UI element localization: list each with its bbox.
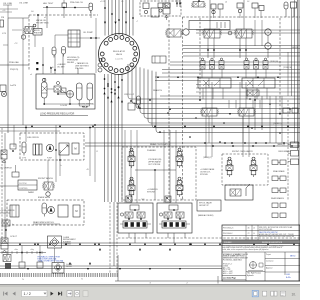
svg-text:(TURB O): (TURB O) [273, 123, 282, 125]
svg-text:OUT STROKE: OUT STROKE [148, 164, 161, 166]
svg-text:CLUTCH: CLUTCH [19, 183, 27, 185]
svg-text:(MANUAL RELIEF): (MANUAL RELIEF) [198, 214, 214, 217]
svg-text:46: 46 [248, 228, 250, 230]
svg-text:J-PILOT: J-PILOT [10, 236, 18, 238]
svg-text:46 J27 SYROUND: 46 J27 SYROUND [259, 229, 273, 231]
svg-text:72: 72 [248, 233, 250, 235]
svg-text:VALVE OIL: VALVE OIL [36, 19, 47, 22]
svg-text:(TANK)(2): (TANK)(2) [277, 143, 285, 146]
svg-text:CIRCL LLP: CIRCL LLP [124, 94, 135, 96]
svg-text:Last Initial Page: Last Initial Page [223, 276, 236, 279]
svg-text:STROKE: STROKE [147, 191, 156, 193]
svg-text:4 PSI: 4 PSI [22, 158, 27, 160]
svg-text:PSI: PSI [1, 17, 5, 19]
svg-text:J-Cal/4B: J-Cal/4B [60, 105, 68, 107]
svg-text:P/N 55900-2: P/N 55900-2 [223, 233, 233, 235]
svg-text:+L/4: +L/4 [2, 10, 5, 12]
svg-text:WARM: WARM [28, 191, 34, 194]
svg-text:J2: J2 [96, 151, 98, 153]
svg-text:+5/LUB ORIFICE: +5/LUB ORIFICE [0, 210, 15, 212]
svg-text:BRAKE VALVE: BRAKE VALVE [38, 196, 51, 199]
svg-text:P.O. BOX 21 - 4400 OSLO: P.O. BOX 21 - 4400 OSLO [223, 259, 243, 261]
svg-text:M: M [74, 147, 76, 151]
svg-text:3BT50: 3BT50 [290, 256, 295, 258]
svg-text:+4/xy: +4/xy [30, 249, 34, 251]
svg-text:+4/xx: +4/xx [14, 249, 18, 251]
svg-text:REA/GTH: REA/GTH [153, 89, 162, 92]
svg-text:OIL LINE: OIL LINE [19, 3, 28, 5]
svg-text:J-Con/70: J-Con/70 [115, 59, 123, 61]
svg-text:J-801: J-801 [286, 274, 290, 276]
svg-text:PRE-CHG OIL: PRE-CHG OIL [70, 2, 84, 4]
svg-text:PLANNED: PLANNED [147, 149, 157, 152]
svg-text:PUMP: PUMP [47, 158, 53, 160]
svg-text:+T: +T [136, 21, 138, 23]
svg-text:LUB OFFICE: LUB OFFICE [27, 137, 39, 139]
svg-text:J-CASING: J-CASING [63, 243, 72, 246]
svg-text:REAR BRAKES: REAR BRAKES [271, 197, 285, 200]
svg-text:4 PSI: 4 PSI [2, 33, 7, 35]
svg-text:x4: x4 [30, 74, 32, 76]
svg-text:RELAY: RELAY [82, 106, 89, 109]
svg-text:5604, PSI 0710 (J42) PVC: 5604, PSI 0710 (J42) PVC [259, 232, 279, 234]
svg-text:PRELOAD: PRELOAD [9, 61, 19, 64]
svg-text:NLP/IN: NLP/IN [292, 47, 299, 49]
svg-text:10.: 10. [292, 292, 297, 296]
svg-text:J/4: J/4 [121, 1, 123, 3]
svg-text:REAR WINCH SPOOL: REAR WINCH SPOOL [33, 221, 55, 224]
svg-text:J-6: J-6 [31, 11, 34, 13]
svg-text:REVISION DESCRIPTION: REVISION DESCRIPTION [262, 242, 283, 244]
svg-text:+T/2: +T/2 [14, 43, 17, 45]
svg-text:(TANK)(2): (TANK)(2) [203, 156, 212, 159]
svg-text:CMDS BRAKES: CMDS BRAKES [278, 150, 292, 153]
svg-text:REGULATOR: REGULATOR [113, 50, 126, 53]
svg-text:+W: +W [86, 169, 89, 171]
svg-text:Hydraulic: Hydraulic [247, 275, 254, 277]
svg-text:1 / 2: 1 / 2 [24, 292, 31, 296]
svg-text:G: G [267, 32, 269, 34]
svg-text:SERIES WITH 3 SECTION BOOM: SERIES WITH 3 SECTION BOOM [223, 258, 248, 260]
svg-text:ZON REV: ZON REV [224, 242, 232, 244]
svg-text:OIL LINE: OIL LINE [3, 3, 12, 5]
svg-text:x4: x4 [225, 2, 227, 4]
svg-text:OIL PUMP: OIL PUMP [83, 32, 93, 34]
svg-text:RELIEF: RELIEF [67, 62, 75, 64]
svg-text:GO2 PSI THERMAL: GO2 PSI THERMAL [78, 103, 94, 106]
svg-text:(TORQ B): (TORQ B) [270, 61, 278, 63]
svg-text:x2: x2 [44, 17, 46, 19]
svg-text:4x: 4x [60, 165, 62, 167]
svg-text:FRONT WINCH: FRONT WINCH [38, 178, 53, 180]
svg-text:B-4/2a: B-4/2a [286, 277, 291, 279]
svg-text:GROUP 2P: GROUP 2P [199, 205, 209, 207]
svg-text:FINAL BRAKE: FINAL BRAKE [273, 170, 285, 173]
svg-text:HEL TEST: HEL TEST [43, 3, 54, 5]
svg-text:M: M [75, 209, 77, 213]
svg-text:TOTAL STORE UHT P 500 (SA): TOTAL STORE UHT P 500 (SA) [38, 260, 64, 263]
svg-text:CONTROL: CONTROL [19, 188, 28, 190]
svg-text:PSI 2000: PSI 2000 [75, 68, 84, 70]
svg-text:OIL ORIFICE: OIL ORIFICE [0, 168, 12, 170]
svg-text:PSI(170): PSI(170) [10, 69, 19, 71]
svg-text:VALVE: VALVE [116, 53, 123, 56]
svg-text:REAR OSCILLATOR: REAR OSCILLATOR [150, 143, 171, 146]
svg-text:x2 CIR: x2 CIR [100, 1, 106, 3]
svg-text:PRE-FIR: PRE-FIR [34, 32, 42, 34]
svg-text:(TORQ M): (TORQ M) [283, 67, 292, 69]
svg-text:FRONT OSCILLATOR: FRONT OSCILLATOR [232, 150, 253, 153]
svg-text:Jct/PS: Jct/PS [10, 84, 17, 87]
svg-text:J-2: J-2 [247, 1, 249, 3]
svg-text:P/X +- 3/W: P/X +- 3/W [223, 269, 231, 271]
svg-text:G: G [267, 46, 269, 48]
svg-text:OIL SET: OIL SET [57, 67, 65, 69]
svg-text:LOAD PRESSURE REGULATOR: LOAD PRESSURE REGULATOR [40, 113, 75, 116]
svg-text:FILTER: FILTER [66, 266, 72, 268]
svg-text:HYD/LLM +-T: HYD/LLM +-T [223, 264, 232, 266]
svg-text:P/N 55900-21: P/N 55900-21 [223, 228, 233, 230]
svg-text:STROKE: STROKE [200, 174, 209, 176]
